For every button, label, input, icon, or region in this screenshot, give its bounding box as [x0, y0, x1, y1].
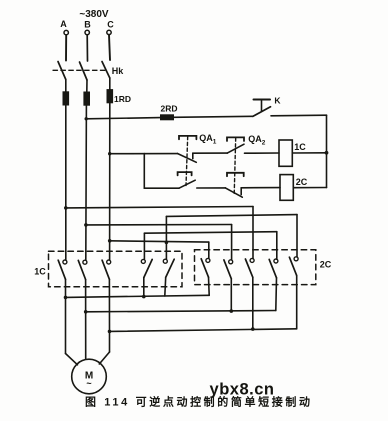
svg-text:~: ~ — [86, 379, 91, 389]
button QA1 upper NC contact blade — [178, 154, 197, 163]
fuse 1RD pole B — [84, 92, 90, 105]
wire B switch to fuse — [86, 80, 88, 92]
wire motor lead A diagonal — [66, 354, 78, 365]
wire contact 2C-3 to bus3 — [252, 277, 254, 329]
wire link row pole5 to pole10 across — [166, 215, 297, 217]
button QA2 actuator bracket lower — [227, 173, 244, 176]
contact 2C-3 fixed circle — [250, 258, 254, 262]
svg-text:1: 1 — [213, 139, 217, 146]
contact 2C-5 blade — [289, 257, 296, 275]
svg-text:QA: QA — [248, 134, 262, 144]
contact 1C-1 fixed circle — [63, 260, 67, 264]
wire row2 feed — [144, 187, 179, 189]
knife switch Hk blade A — [58, 62, 66, 80]
button K actuator bar — [254, 99, 271, 101]
button QA1 actuator bracket lower — [178, 172, 192, 175]
node L_C tap on phase C — [108, 239, 112, 243]
wire QA1 upper to QA2 upper — [193, 152, 228, 154]
node pole8 on bus3 — [251, 327, 255, 331]
contact 1C-1 blade — [58, 260, 65, 279]
wire A terminal to switch — [65, 35, 67, 61]
wire link contact 1C-5 top riser — [165, 216, 167, 258]
wire bus1 — [66, 295, 210, 297]
node pole4 on bus1 — [142, 295, 146, 299]
svg-text:2C: 2C — [320, 259, 332, 269]
button QA2 actuator dashed link — [234, 138, 236, 195]
contact 2C-4 blade — [269, 259, 276, 277]
wire line A across — [66, 207, 253, 208]
svg-text:A: A — [60, 19, 67, 29]
button K stem — [261, 100, 263, 111]
wire contact 2C-1 to bus1 end — [208, 277, 211, 295]
svg-text:2C: 2C — [296, 177, 308, 187]
contact 1C-3 fixed circle — [107, 260, 111, 264]
contact 1C-5 blade (mirrored) — [166, 259, 175, 277]
node pole7 on bus2 — [230, 309, 234, 313]
wire line C drop to contact 2C-1 — [208, 242, 210, 258]
wire contact 2C-5 to bus3 end — [296, 276, 298, 329]
wire contact 1C-5 to bus1 — [164, 277, 167, 296]
motor M circle — [72, 359, 107, 394]
node control line tap on phase B — [85, 117, 88, 120]
svg-text:~380V: ~380V — [79, 9, 109, 20]
wire C terminal to switch — [109, 35, 110, 60]
contact 1C-4 fixed circle — [141, 259, 145, 263]
wire QA2 lower to coil 2C — [241, 187, 280, 189]
wire 2RD to button K — [174, 116, 254, 117]
wire phase A vertical down to contact 1C-1 — [65, 105, 67, 260]
wire drop to contact 2C-5 — [296, 215, 298, 257]
svg-text:C: C — [107, 20, 114, 30]
wire contact 2C-4 to bus2 end — [275, 278, 278, 311]
wire C switch to fuse — [109, 78, 111, 90]
wire bus3 — [110, 329, 297, 332]
wire line C across — [110, 241, 209, 242]
contact 2C-2 fixed circle — [229, 260, 233, 264]
wire contact 1C-1 to bus1 and motor — [65, 279, 67, 353]
wire QA1 lower to QA2 lower — [197, 187, 226, 189]
wire drop to contact 2C-4 — [276, 232, 278, 260]
contact 2C-3 blade — [245, 259, 252, 277]
svg-text:1C: 1C — [294, 142, 306, 152]
terminal C — [107, 30, 111, 34]
contact 2C-2 blade — [224, 260, 231, 279]
contact 1C-2 blade — [78, 260, 85, 279]
wire bus2 — [86, 311, 276, 312]
wire coil 1C to right link — [292, 152, 326, 154]
terminal B — [85, 30, 89, 34]
knife switch Hk blade C — [102, 62, 110, 79]
wire phase C vertical down to contact 1C-3 — [109, 103, 111, 260]
button K blade — [253, 107, 271, 117]
button QA1 upper NC contact stop tick — [192, 153, 194, 158]
wire contact 2C-2 to bus2 — [230, 279, 232, 312]
wire phase B vertical down to contact 1C-2 — [85, 105, 88, 260]
contact 1C-3 blade — [102, 260, 109, 279]
wire motor lead C diagonal — [99, 352, 109, 364]
contact 1C-5 fixed circle — [163, 259, 167, 263]
wire right link vertical down to coils — [326, 115, 328, 187]
wire B terminal to switch — [86, 35, 88, 61]
wire QA2 upper to coil 1C — [245, 152, 280, 154]
node L_B tap on phase B — [84, 223, 88, 227]
wire motor lead C vertical — [109, 331, 111, 352]
contactor 1C group dashed box — [49, 251, 183, 287]
button QA1 actuator bracket upper — [179, 136, 196, 139]
node control row tap on phase C — [108, 152, 111, 155]
wire control top line B to 2RD — [86, 118, 160, 119]
wire row1 feed from phase C — [110, 153, 178, 155]
wire coil 2C to right link — [293, 187, 326, 189]
contactor 2C group dashed box — [195, 250, 316, 285]
fuse 2RD — [161, 115, 174, 120]
wire row1-row2 link vertical — [143, 154, 145, 189]
svg-text:QA: QA — [199, 133, 213, 143]
wire link contact 1C-4 top riser — [143, 233, 145, 259]
button QA2 actuator bracket upper — [227, 137, 244, 141]
button QA1 lower NO contact blade — [179, 180, 195, 188]
fuse 1RD pole C — [107, 90, 113, 103]
contact 1C-2 fixed circle — [83, 260, 87, 264]
contact 2C-1 fixed circle — [206, 258, 210, 262]
node bus3 start — [108, 330, 112, 334]
button QA1 actuator dashed link — [186, 137, 188, 186]
svg-text:Hk: Hk — [112, 66, 124, 76]
wire K to right link — [271, 114, 327, 117]
wire contact 1C-4 to bus1 — [143, 278, 145, 297]
button QA2 lower NC contact blade — [225, 188, 242, 197]
button QA2 upper NO contact blade — [227, 144, 244, 153]
wire A switch to fuse — [65, 80, 67, 93]
wire line B across — [86, 224, 232, 226]
node line C crossing contact 1C-5 wire — [165, 241, 169, 245]
button QA2 lower NC contact stop tick — [240, 188, 242, 195]
wire contact 1C-3 to bus3 — [108, 279, 110, 331]
svg-text:B: B — [84, 20, 91, 30]
node junction 1C coil output — [325, 151, 329, 155]
svg-text:图 114 可逆点动控制的简单短接制动: 图 114 可逆点动控制的简单短接制动 — [85, 395, 310, 409]
node bus2 start — [84, 310, 88, 314]
svg-text:2RD: 2RD — [160, 104, 177, 114]
node L_A tap on phase A — [64, 206, 68, 210]
knife switch Hk blade B — [80, 62, 88, 80]
fuse 1RD pole A — [63, 92, 69, 105]
contact 1C-4 blade (mirrored) — [144, 259, 152, 277]
svg-text:K: K — [274, 96, 281, 106]
wire contact 1C-2 to bus2 and motor — [85, 280, 87, 359]
contact 2C-4 fixed circle — [274, 259, 278, 263]
svg-text:1C: 1C — [34, 267, 46, 277]
contactor coil 1C — [279, 140, 292, 166]
svg-text:1RD: 1RD — [114, 94, 131, 104]
contactor coil 2C — [280, 175, 293, 201]
contact 2C-5 fixed circle — [294, 257, 298, 261]
terminal A — [64, 30, 68, 34]
svg-text:2: 2 — [262, 140, 266, 147]
knife switch Hk linkage (dashed) — [53, 69, 106, 71]
contact 2C-1 blade — [201, 259, 208, 277]
node bus1 start — [64, 296, 68, 300]
wire line B drop to contact 2C-2 — [231, 225, 233, 260]
wire link row pole4 to pole9 across — [144, 232, 276, 234]
wire line A drop to contact 2C-3 — [252, 207, 254, 259]
